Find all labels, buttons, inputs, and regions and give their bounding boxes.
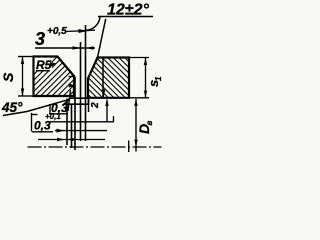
dimension S line with arrows: [22, 57, 24, 97]
bottom dimension line: [38, 139, 105, 141]
svg-text:+0,1: +0,1: [45, 112, 61, 121]
backing ring: [64, 98, 89, 104]
svg-text:S: S: [0, 72, 16, 82]
s1 dimension line: [145, 58, 147, 98]
text Dv: [136, 121, 154, 135]
svg-text:в: в: [145, 121, 154, 126]
svg-text:3: 3: [35, 29, 45, 49]
svg-text:R5: R5: [36, 58, 52, 72]
small dimension right of root: [106, 100, 108, 122]
svg-text:2: 2: [90, 102, 101, 109]
12 deg leader line: [86, 17, 100, 31]
svg-text:1: 1: [154, 76, 163, 81]
interior vertical mark: [102, 58, 104, 97]
gap dimension line: [35, 47, 95, 49]
pipe axis centerline (dash-dot): [28, 146, 162, 148]
arrow to ring left: [55, 130, 107, 132]
gap extension line left: [80, 42, 82, 141]
0,3 label upper: [49, 104, 51, 114]
gap extension line right: [85, 25, 87, 141]
bevel angle extension line: [98, 19, 106, 58]
right pipe wall (hatched section): [88, 58, 129, 98]
verticals below root: [66, 99, 68, 146]
dimension S extension lines: [18, 56, 34, 58]
edge extension tick at centerline: [128, 141, 130, 153]
left pipe wall (hatched section): [34, 57, 75, 97]
R5 label: [35, 58, 52, 71]
s1 extension lines: [129, 57, 149, 59]
text s1: [146, 76, 163, 87]
svg-text:+0,5: +0,5: [47, 26, 67, 37]
groove ledge tick: [69, 76, 76, 78]
Dv dimension line: [135, 99, 137, 152]
